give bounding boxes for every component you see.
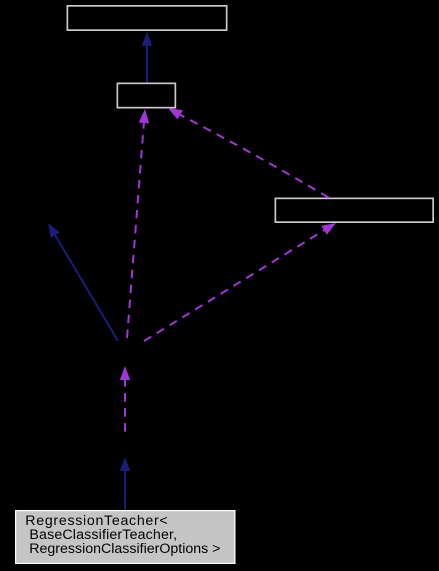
- wire: dashed template arrow right box -> mid box: [168, 108, 329, 198]
- wire: dashed template arrow hidden node A -> hub: [120, 366, 131, 432]
- wire: solid inheritance arrow bottom box -> hidden node A: [120, 457, 131, 510]
- wire: dashed template arrow hub -> mid box: [127, 109, 149, 338]
- node: middle class box (empty label): [117, 83, 175, 107]
- node label: RegressionTeacher< BaseClassifierTeacher, RegressionClassifierOptions >: [25, 514, 220, 556]
- wire: dashed template arrow hub -> right box: [144, 223, 336, 341]
- node: top base-class box (empty label): [67, 6, 226, 30]
- node: RegressionTeacher box (filled, current node): [16, 511, 235, 564]
- node: right class box (empty label): [275, 198, 433, 222]
- wire: solid inheritance arrow hub -> upper-left hidden node: [48, 223, 118, 341]
- wire: solid inheritance arrow mid box -> top box: [142, 32, 153, 83]
